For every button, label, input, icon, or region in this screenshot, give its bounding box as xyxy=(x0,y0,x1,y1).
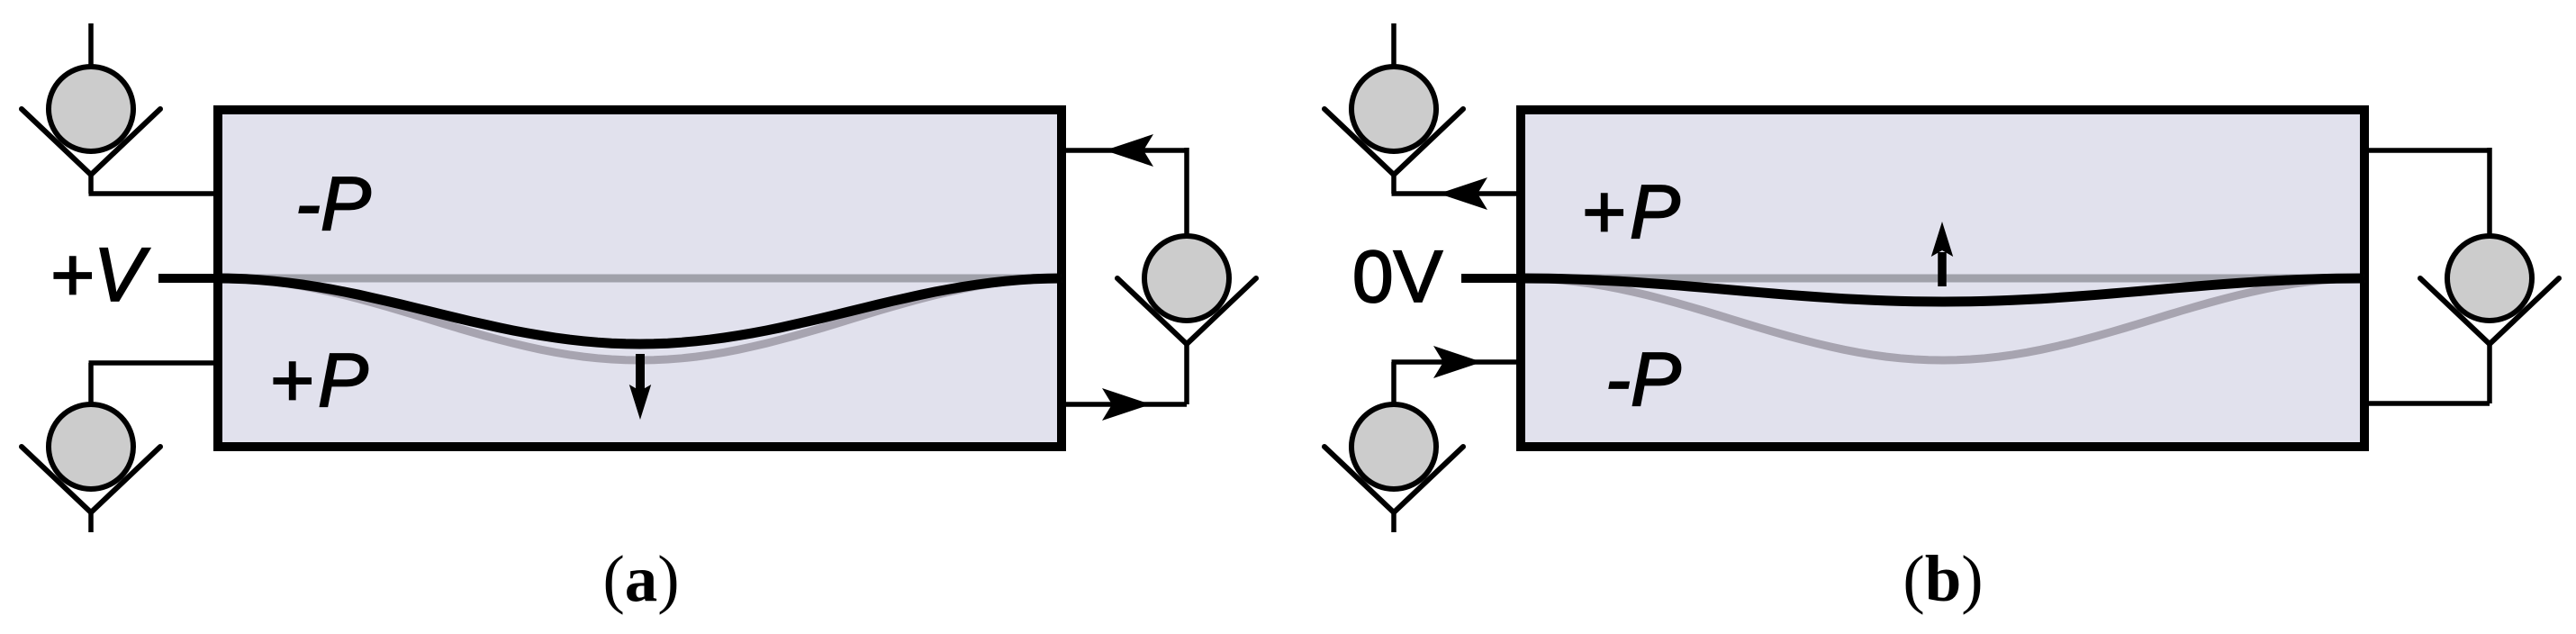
valve B1 port stub xyxy=(1391,23,1396,68)
svg-text:+V: +V xyxy=(50,232,150,317)
valve A1 outlet stub xyxy=(88,173,94,194)
membrane deflected curve A xyxy=(218,278,1062,344)
wire +V to box A xyxy=(158,274,222,283)
wire valve B3 riser bottom xyxy=(2487,342,2492,403)
svg-text:+P: +P xyxy=(269,338,373,422)
flow arrow out of box B top xyxy=(1439,177,1487,210)
valve A2 inlet stub xyxy=(88,363,94,406)
flow arrow into box B bottom xyxy=(1433,346,1482,378)
wire valve A2 to box A xyxy=(89,360,219,366)
svg-text:(b): (b) xyxy=(1903,542,1983,615)
check valve B1 (top-left) seat xyxy=(1324,109,1463,175)
check valve A3 (right) seat xyxy=(1117,278,1256,344)
membrane motion arrow B (up) xyxy=(1938,252,1947,286)
check valve B1 (top-left) ball xyxy=(1351,67,1436,151)
chamber box B xyxy=(1521,110,2364,447)
check valve A3 (right) ball xyxy=(1144,236,1229,321)
check valve A1 (top-left) seat xyxy=(22,109,160,175)
membrane rest line A xyxy=(218,275,1062,283)
wire valve A3 riser bottom xyxy=(1184,342,1189,404)
valve A2 port stub xyxy=(88,511,94,532)
membrane ghost curve A (full deflection) xyxy=(218,278,1062,360)
check valve B3 (right) seat xyxy=(2420,278,2559,344)
svg-text:0V: 0V xyxy=(1352,236,1443,318)
valve A1 port stub xyxy=(88,23,94,68)
check valve B3 (right) ball xyxy=(2447,236,2532,321)
flow arrow into box A top xyxy=(1105,134,1153,167)
wire 0V to box B xyxy=(1461,274,1525,283)
membrane motion arrow A (down) xyxy=(636,354,645,394)
wire valve B2 to box B xyxy=(1392,359,1522,365)
wire box A to valve A3 bottom xyxy=(1062,402,1187,407)
wire valve A1 to box A xyxy=(89,191,219,196)
wire valve A3 riser top xyxy=(1184,148,1189,237)
valve B2 port stub xyxy=(1391,511,1396,532)
wire valve B1 to box B xyxy=(1392,191,1522,196)
membrane ghost curve B (full deflection) xyxy=(1521,278,2364,360)
chamber box A xyxy=(218,110,1062,447)
flow arrow out of box A bottom xyxy=(1102,388,1151,421)
membrane deflected curve B xyxy=(1521,278,2364,302)
svg-text:(a): (a) xyxy=(602,542,679,615)
wire valve B3 riser top xyxy=(2487,148,2492,237)
check valve A1 (top-left) ball xyxy=(49,67,133,151)
wire box B to valve B3 bottom xyxy=(2364,401,2490,406)
check valve A2 (bottom-left) seat xyxy=(22,447,160,512)
check valve B2 (bottom-left) ball xyxy=(1351,404,1436,489)
wire box B to valve B3 top xyxy=(2364,148,2490,153)
valve B1 outlet stub xyxy=(1391,173,1396,194)
svg-text:+P: +P xyxy=(1581,169,1685,254)
check valve B2 (bottom-left) seat xyxy=(1324,447,1463,512)
check valve A2 (bottom-left) ball xyxy=(49,404,133,489)
membrane rest line B xyxy=(1521,275,2364,283)
svg-text:-P: -P xyxy=(1605,337,1681,421)
svg-text:-P: -P xyxy=(295,161,371,246)
wire box A to valve A3 top xyxy=(1062,148,1187,153)
valve B2 inlet stub xyxy=(1391,362,1396,406)
